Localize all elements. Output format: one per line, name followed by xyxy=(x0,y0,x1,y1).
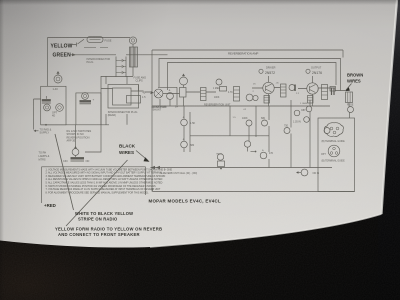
right edge highlight xyxy=(382,0,398,214)
pointer line white-to-black xyxy=(55,134,74,210)
vibrator socket blob xyxy=(324,123,343,137)
wire stub under fuse xyxy=(84,47,108,49)
wires mid verticals xyxy=(230,100,310,168)
OD node xyxy=(301,169,308,176)
right column small node xyxy=(304,117,310,123)
box condenser unit left xyxy=(41,86,66,125)
lamp in box xyxy=(44,104,51,111)
wire transformer down xyxy=(101,44,133,76)
fuse F1 on top wire xyxy=(87,37,103,43)
arrow brown wires xyxy=(346,84,352,91)
electrolytic E2 xyxy=(181,119,188,126)
wires first stage xyxy=(145,85,216,106)
dial lamp left low xyxy=(72,149,79,156)
lamp mid with arrow xyxy=(180,77,188,85)
box condenser unit 2 xyxy=(76,93,101,125)
small cap right xyxy=(332,88,335,96)
wire long black lead xyxy=(151,167,333,169)
wire left vertical drop xyxy=(47,38,49,87)
box B nested border xyxy=(159,59,341,91)
resistor R hatched xyxy=(201,88,207,101)
wire into coil xyxy=(335,91,349,107)
resistor hatched right of driver xyxy=(281,84,287,97)
terminal guide box xyxy=(318,118,355,192)
pointer line yellow-from-radio xyxy=(66,160,128,226)
capacitor C30 xyxy=(71,157,85,159)
lamp in box 2 xyxy=(56,104,64,112)
wire mid rail xyxy=(152,105,330,107)
electrolytic 470 xyxy=(260,152,267,159)
electrolytic with + xyxy=(167,93,174,100)
node circle xyxy=(244,141,250,147)
transistor Q1 xyxy=(263,82,274,93)
output labels xyxy=(306,69,310,73)
electrolytic E3 xyxy=(181,141,188,148)
rectifier unit xyxy=(217,154,223,160)
transformer T1 xyxy=(129,37,136,44)
relay box inner xyxy=(113,88,132,105)
output wires xyxy=(298,76,335,106)
speaker circle SP1 xyxy=(154,89,163,98)
lamp box2 xyxy=(82,93,89,100)
arrow to radio xyxy=(34,130,39,132)
node right col xyxy=(324,128,330,134)
component box xyxy=(180,88,187,98)
resistor node 100K xyxy=(246,120,252,126)
wire yellow lead xyxy=(70,39,84,46)
capacitor C2 xyxy=(80,100,92,102)
node 750 xyxy=(284,128,290,134)
emitter resistor driver xyxy=(264,96,270,104)
resistor node 680 xyxy=(262,120,268,126)
wire green lead with arrow xyxy=(71,54,117,56)
wire box1 left stub xyxy=(34,99,41,130)
box C nested border xyxy=(168,63,337,91)
right dark band xyxy=(378,0,400,300)
emitter resistor output xyxy=(308,96,314,104)
node dot arrow xyxy=(251,151,255,153)
wire bottom rail of boxes xyxy=(41,124,109,126)
relay box outer xyxy=(108,85,139,109)
driver labels xyxy=(259,69,263,73)
wire bottom rail xyxy=(153,189,355,192)
resistor hatched right of Q2 xyxy=(322,85,328,100)
terminal small rect xyxy=(220,87,227,92)
right edge tiny rects xyxy=(330,87,336,92)
wire red lead bracket xyxy=(42,167,146,203)
wire left long vertical xyxy=(85,76,101,152)
socket round xyxy=(328,145,340,157)
relay box overlap xyxy=(127,96,141,104)
reverberation amp box A xyxy=(152,50,343,192)
node small top2 xyxy=(306,106,312,112)
input arrow xyxy=(151,91,154,94)
wire mid vertical xyxy=(184,106,190,152)
transistor Q2 xyxy=(307,83,318,94)
wire mid horizontal xyxy=(190,135,269,137)
capacitor C1 xyxy=(42,99,51,101)
notes list xyxy=(46,168,173,194)
arrow black wires xyxy=(136,151,148,161)
wire green into amp xyxy=(126,54,168,56)
wire relay verticals xyxy=(106,76,127,125)
node circle pair xyxy=(246,94,253,101)
lamp above box xyxy=(54,75,62,83)
small circle node xyxy=(216,79,222,85)
top edge fade xyxy=(0,0,400,5)
scattered value labels xyxy=(233,83,308,120)
connector J1 xyxy=(116,57,126,78)
choke coil right xyxy=(346,92,353,103)
driver wires xyxy=(252,76,280,106)
resistor hatched left of driver xyxy=(234,87,240,102)
node small top xyxy=(294,110,300,116)
coupling cap xyxy=(289,85,295,91)
wire top horizontal feed xyxy=(48,37,131,39)
wire lamp feed xyxy=(75,125,77,149)
